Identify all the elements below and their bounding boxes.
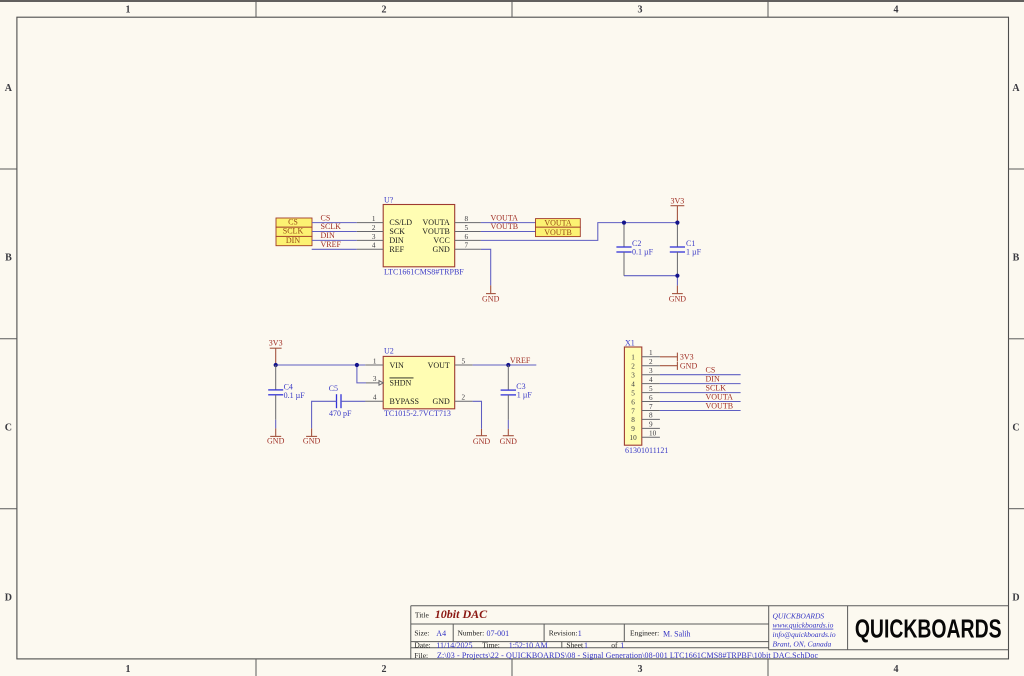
svg-text:A4: A4 bbox=[436, 629, 446, 638]
node junction 3V3-C1 bbox=[675, 221, 679, 225]
pin 5 bbox=[631, 385, 660, 398]
svg-text:M. Salih: M. Salih bbox=[663, 630, 691, 639]
svg-text:VOUT: VOUT bbox=[428, 361, 450, 370]
node junction SHDN tee bbox=[355, 363, 359, 367]
svg-text:CS: CS bbox=[706, 366, 716, 375]
svg-text:GND: GND bbox=[680, 361, 698, 370]
wire CS net bbox=[312, 222, 357, 224]
svg-text:DIN: DIN bbox=[389, 236, 403, 245]
svg-text:SCLK: SCLK bbox=[283, 227, 304, 236]
svg-text:Revision:: Revision: bbox=[549, 629, 578, 638]
svg-text:C5: C5 bbox=[329, 384, 338, 393]
svg-text:5: 5 bbox=[631, 389, 635, 397]
wire GND pin7 drop bbox=[481, 249, 491, 285]
svg-text:D: D bbox=[5, 592, 12, 603]
svg-text:0.1 µF: 0.1 µF bbox=[632, 248, 654, 257]
svg-text:4: 4 bbox=[649, 376, 653, 384]
ground GND (X1 pin2) bbox=[660, 361, 698, 370]
node junction C1-GND bbox=[675, 274, 679, 278]
svg-text:9: 9 bbox=[631, 425, 635, 433]
svg-text:4: 4 bbox=[894, 4, 899, 15]
svg-text:1: 1 bbox=[126, 664, 131, 675]
pin 8 bbox=[631, 412, 660, 425]
svg-text:10: 10 bbox=[630, 434, 638, 442]
pin 1 VIN bbox=[365, 357, 404, 370]
svg-text:1 µF: 1 µF bbox=[686, 248, 702, 257]
svg-text:3V3: 3V3 bbox=[680, 352, 694, 361]
svg-text:QUICKBOARDS: QUICKBOARDS bbox=[855, 614, 1002, 643]
ground GND (U? pin7) bbox=[482, 285, 500, 303]
svg-text:GND: GND bbox=[500, 437, 518, 446]
pin 9 bbox=[631, 421, 660, 434]
svg-text:GND: GND bbox=[303, 436, 321, 445]
CIRCUIT bbox=[267, 196, 741, 456]
svg-text:2: 2 bbox=[382, 4, 387, 15]
capacitor C4 bbox=[268, 365, 305, 420]
svg-text:7: 7 bbox=[465, 242, 469, 250]
svg-text:VOUTA: VOUTA bbox=[491, 213, 519, 222]
power 3V3 (regulator input) bbox=[269, 339, 283, 365]
svg-text:2: 2 bbox=[382, 664, 387, 675]
pin 3 bbox=[631, 367, 660, 380]
svg-text:1: 1 bbox=[372, 215, 376, 223]
ground GND (C4) bbox=[267, 428, 285, 445]
svg-text:C1: C1 bbox=[686, 239, 695, 248]
svg-text:VIN: VIN bbox=[390, 361, 404, 370]
svg-text:6: 6 bbox=[631, 398, 635, 406]
wire VREF net (top) bbox=[312, 248, 357, 250]
svg-text:10bit DAC: 10bit DAC bbox=[435, 607, 488, 621]
svg-text:VCC: VCC bbox=[433, 236, 449, 245]
port SCLK bbox=[276, 227, 312, 237]
wire VCC to caps bbox=[481, 223, 678, 241]
svg-text:CS/LD: CS/LD bbox=[389, 218, 412, 227]
svg-text:X1: X1 bbox=[625, 338, 635, 347]
svg-text:CS: CS bbox=[288, 218, 298, 227]
wire SCLK net bbox=[312, 231, 357, 233]
svg-text:3V3: 3V3 bbox=[671, 196, 685, 205]
svg-text:A: A bbox=[5, 83, 13, 94]
wire cap bottoms bbox=[624, 275, 677, 277]
svg-text:SCLK: SCLK bbox=[706, 384, 727, 393]
svg-text:B: B bbox=[5, 253, 12, 264]
svg-text:DIN: DIN bbox=[286, 236, 300, 245]
power 3V3 (X1 pin1) bbox=[660, 352, 694, 361]
svg-text:Time:: Time: bbox=[482, 640, 500, 649]
wire X1 DIN bbox=[660, 383, 741, 385]
svg-text:1: 1 bbox=[373, 357, 377, 365]
svg-text:VOUTB: VOUTB bbox=[706, 402, 734, 411]
svg-text:1: 1 bbox=[126, 4, 131, 15]
svg-text:info@quickboards.io: info@quickboards.io bbox=[773, 630, 836, 639]
wire C5 to BYPASS bbox=[341, 400, 365, 402]
capacitor C2 bbox=[616, 223, 653, 276]
svg-text:Title: Title bbox=[415, 611, 430, 620]
svg-text:3: 3 bbox=[649, 367, 653, 375]
svg-text:Sheet: Sheet bbox=[566, 640, 584, 649]
svg-text:U2: U2 bbox=[384, 346, 394, 355]
svg-text:4: 4 bbox=[894, 664, 899, 675]
svg-text:VOUTB: VOUTB bbox=[491, 222, 519, 231]
TITLEBLOCK bbox=[411, 606, 1009, 661]
svg-text:TC1015-2.7VCT713: TC1015-2.7VCT713 bbox=[384, 409, 451, 418]
svg-text:8: 8 bbox=[649, 412, 653, 420]
svg-text:470 pF: 470 pF bbox=[329, 409, 352, 418]
svg-text:SCK: SCK bbox=[389, 227, 405, 236]
wire VOUTA net bbox=[481, 222, 536, 224]
svg-text:VREF: VREF bbox=[321, 240, 342, 249]
node junction VCC-C2 bbox=[622, 221, 626, 225]
pin 5 VOUTB bbox=[422, 224, 481, 236]
wire X1 CS bbox=[660, 374, 741, 376]
pin 7 GND bbox=[432, 242, 480, 254]
pin 10 bbox=[630, 430, 660, 443]
port CS bbox=[276, 218, 312, 228]
svg-text:U?: U? bbox=[384, 196, 394, 205]
svg-text:3: 3 bbox=[631, 372, 635, 380]
wire VOUTB net bbox=[481, 231, 536, 233]
svg-text:3V3: 3V3 bbox=[269, 339, 283, 348]
port DIN bbox=[276, 236, 312, 246]
svg-text:6: 6 bbox=[465, 233, 469, 241]
svg-text:1: 1 bbox=[631, 354, 635, 362]
pin 2 GND bbox=[432, 393, 472, 406]
svg-text:07-001: 07-001 bbox=[487, 629, 510, 638]
wire VOUT to VREF bbox=[473, 364, 537, 366]
wire SHDN branch bbox=[357, 365, 366, 383]
wire C5 left drop bbox=[312, 401, 337, 428]
svg-text:VOUTA: VOUTA bbox=[422, 218, 450, 227]
svg-text:BYPASS: BYPASS bbox=[390, 397, 420, 406]
svg-text:QUICKBOARDS: QUICKBOARDS bbox=[773, 611, 825, 620]
svg-text:3: 3 bbox=[373, 375, 377, 383]
svg-text:0.1 µF: 0.1 µF bbox=[284, 391, 306, 400]
svg-text:www.quickboards.io: www.quickboards.io bbox=[773, 621, 834, 630]
wire C1 to gnd bbox=[676, 276, 678, 286]
capacitor C1 bbox=[670, 223, 702, 276]
svg-text:1: 1 bbox=[584, 641, 588, 650]
power 3V3 (top) bbox=[671, 196, 685, 222]
capacitor C3 bbox=[501, 365, 533, 420]
svg-text:4: 4 bbox=[373, 393, 377, 401]
svg-text:File:: File: bbox=[414, 651, 428, 660]
svg-text:SCLK: SCLK bbox=[321, 222, 342, 231]
svg-text:7: 7 bbox=[631, 407, 635, 415]
ground GND (C3) bbox=[500, 429, 518, 446]
svg-text:GND: GND bbox=[267, 436, 285, 445]
svg-text:5: 5 bbox=[462, 357, 466, 365]
node junction VREF-C3 bbox=[506, 363, 510, 367]
svg-text:Brant, ON, Canada: Brant, ON, Canada bbox=[773, 639, 832, 648]
pin 3 SHDN bbox=[366, 375, 414, 388]
svg-text:DIN: DIN bbox=[706, 375, 720, 384]
svg-text:1 µF: 1 µF bbox=[517, 391, 533, 400]
svg-text:SHDN: SHDN bbox=[390, 379, 412, 388]
ground GND (C5) bbox=[303, 428, 321, 445]
wire C3 to gnd bbox=[507, 420, 509, 429]
svg-text:10: 10 bbox=[649, 430, 657, 438]
svg-text:C4: C4 bbox=[284, 382, 293, 391]
pin 4 REF bbox=[357, 242, 405, 254]
svg-text:1:52:10 AM: 1:52:10 AM bbox=[509, 641, 548, 650]
pin 6 VCC bbox=[433, 233, 481, 245]
pin 5 VOUT bbox=[428, 357, 473, 370]
wire X1 SCLK bbox=[660, 392, 741, 394]
svg-text:C2: C2 bbox=[632, 239, 641, 248]
svg-text:Z:\03 - Projects\22 - QUICKBOA: Z:\03 - Projects\22 - QUICKBOARDS\08 - S… bbox=[437, 651, 818, 660]
svg-text:11/14/2025: 11/14/2025 bbox=[436, 641, 472, 650]
pin 1 bbox=[631, 349, 660, 362]
port VOUTB bbox=[536, 227, 581, 237]
svg-text:5: 5 bbox=[465, 224, 469, 232]
svg-text:VOUTB: VOUTB bbox=[422, 227, 450, 236]
pin 1 CS/LD bbox=[357, 215, 412, 227]
svg-text:2: 2 bbox=[462, 393, 466, 401]
svg-text:3: 3 bbox=[638, 664, 643, 675]
svg-text:GND: GND bbox=[669, 295, 687, 304]
svg-text:6: 6 bbox=[649, 394, 653, 402]
pin 6 bbox=[631, 394, 660, 407]
svg-text:Date:: Date: bbox=[414, 640, 430, 649]
port VOUTA bbox=[536, 219, 581, 228]
svg-text:2: 2 bbox=[649, 358, 653, 366]
svg-text:Engineer:: Engineer: bbox=[630, 629, 659, 638]
svg-text:C: C bbox=[1012, 423, 1019, 434]
svg-text:VREF: VREF bbox=[510, 356, 531, 365]
ground GND (decoupling) bbox=[669, 286, 687, 304]
regulator U2 bbox=[365, 346, 472, 418]
node junction 3V3-C4 bbox=[274, 363, 278, 367]
svg-text:1: 1 bbox=[578, 629, 582, 638]
capacitor C5 bbox=[329, 384, 352, 418]
ground GND (U2) bbox=[473, 429, 491, 446]
wire 3V3 to VIN bbox=[276, 364, 366, 366]
connector X1 bbox=[624, 338, 668, 455]
pin 7 bbox=[631, 403, 660, 416]
svg-text:A: A bbox=[1012, 83, 1020, 94]
pin 2 SCK bbox=[357, 224, 405, 236]
wire U2 GND drop bbox=[473, 401, 482, 429]
svg-text:3: 3 bbox=[372, 233, 376, 241]
svg-text:3: 3 bbox=[638, 4, 643, 15]
svg-text:B: B bbox=[1013, 253, 1020, 264]
svg-text:4: 4 bbox=[631, 380, 635, 388]
svg-text:REF: REF bbox=[389, 245, 404, 254]
svg-text:VOUTB: VOUTB bbox=[544, 228, 572, 237]
svg-text:LTC1661CMS8#TRPBF: LTC1661CMS8#TRPBF bbox=[384, 267, 464, 276]
svg-text:4: 4 bbox=[372, 242, 376, 250]
pin 4 BYPASS bbox=[365, 393, 419, 406]
svg-text:C: C bbox=[5, 423, 12, 434]
svg-text:VOUTA: VOUTA bbox=[706, 393, 734, 402]
svg-text:of: of bbox=[611, 640, 618, 649]
pin 4 bbox=[631, 376, 660, 389]
svg-text:1: 1 bbox=[620, 641, 624, 650]
svg-text:DIN: DIN bbox=[321, 231, 335, 240]
svg-text:GND: GND bbox=[432, 397, 450, 406]
wire X1 VOUTA bbox=[660, 401, 741, 403]
svg-text:CS: CS bbox=[321, 213, 331, 222]
op-amp U? DAC LTC1661 bbox=[357, 196, 481, 277]
wire DIN net bbox=[312, 239, 357, 241]
svg-text:Size:: Size: bbox=[414, 629, 429, 638]
svg-text:8: 8 bbox=[631, 416, 635, 424]
pin 8 VOUTA bbox=[422, 215, 480, 227]
wire X1 VOUTB bbox=[660, 410, 741, 412]
svg-text:GND: GND bbox=[482, 295, 500, 304]
svg-text:D: D bbox=[1012, 592, 1019, 603]
svg-text:8: 8 bbox=[465, 215, 469, 223]
svg-text:9: 9 bbox=[649, 421, 653, 429]
svg-text:5: 5 bbox=[649, 385, 653, 393]
wire C4 to gnd bbox=[275, 420, 277, 429]
svg-text:2: 2 bbox=[372, 224, 376, 232]
pin 3 DIN bbox=[357, 233, 404, 245]
svg-text:1: 1 bbox=[649, 349, 653, 357]
pin 2 bbox=[631, 358, 660, 371]
svg-text:7: 7 bbox=[649, 403, 653, 411]
svg-text:VOUTA: VOUTA bbox=[544, 219, 572, 228]
svg-text:GND: GND bbox=[473, 437, 491, 446]
svg-text:Number:: Number: bbox=[458, 629, 485, 638]
svg-text:61301011121: 61301011121 bbox=[625, 446, 668, 455]
svg-text:2: 2 bbox=[631, 363, 635, 371]
svg-text:GND: GND bbox=[432, 245, 450, 254]
